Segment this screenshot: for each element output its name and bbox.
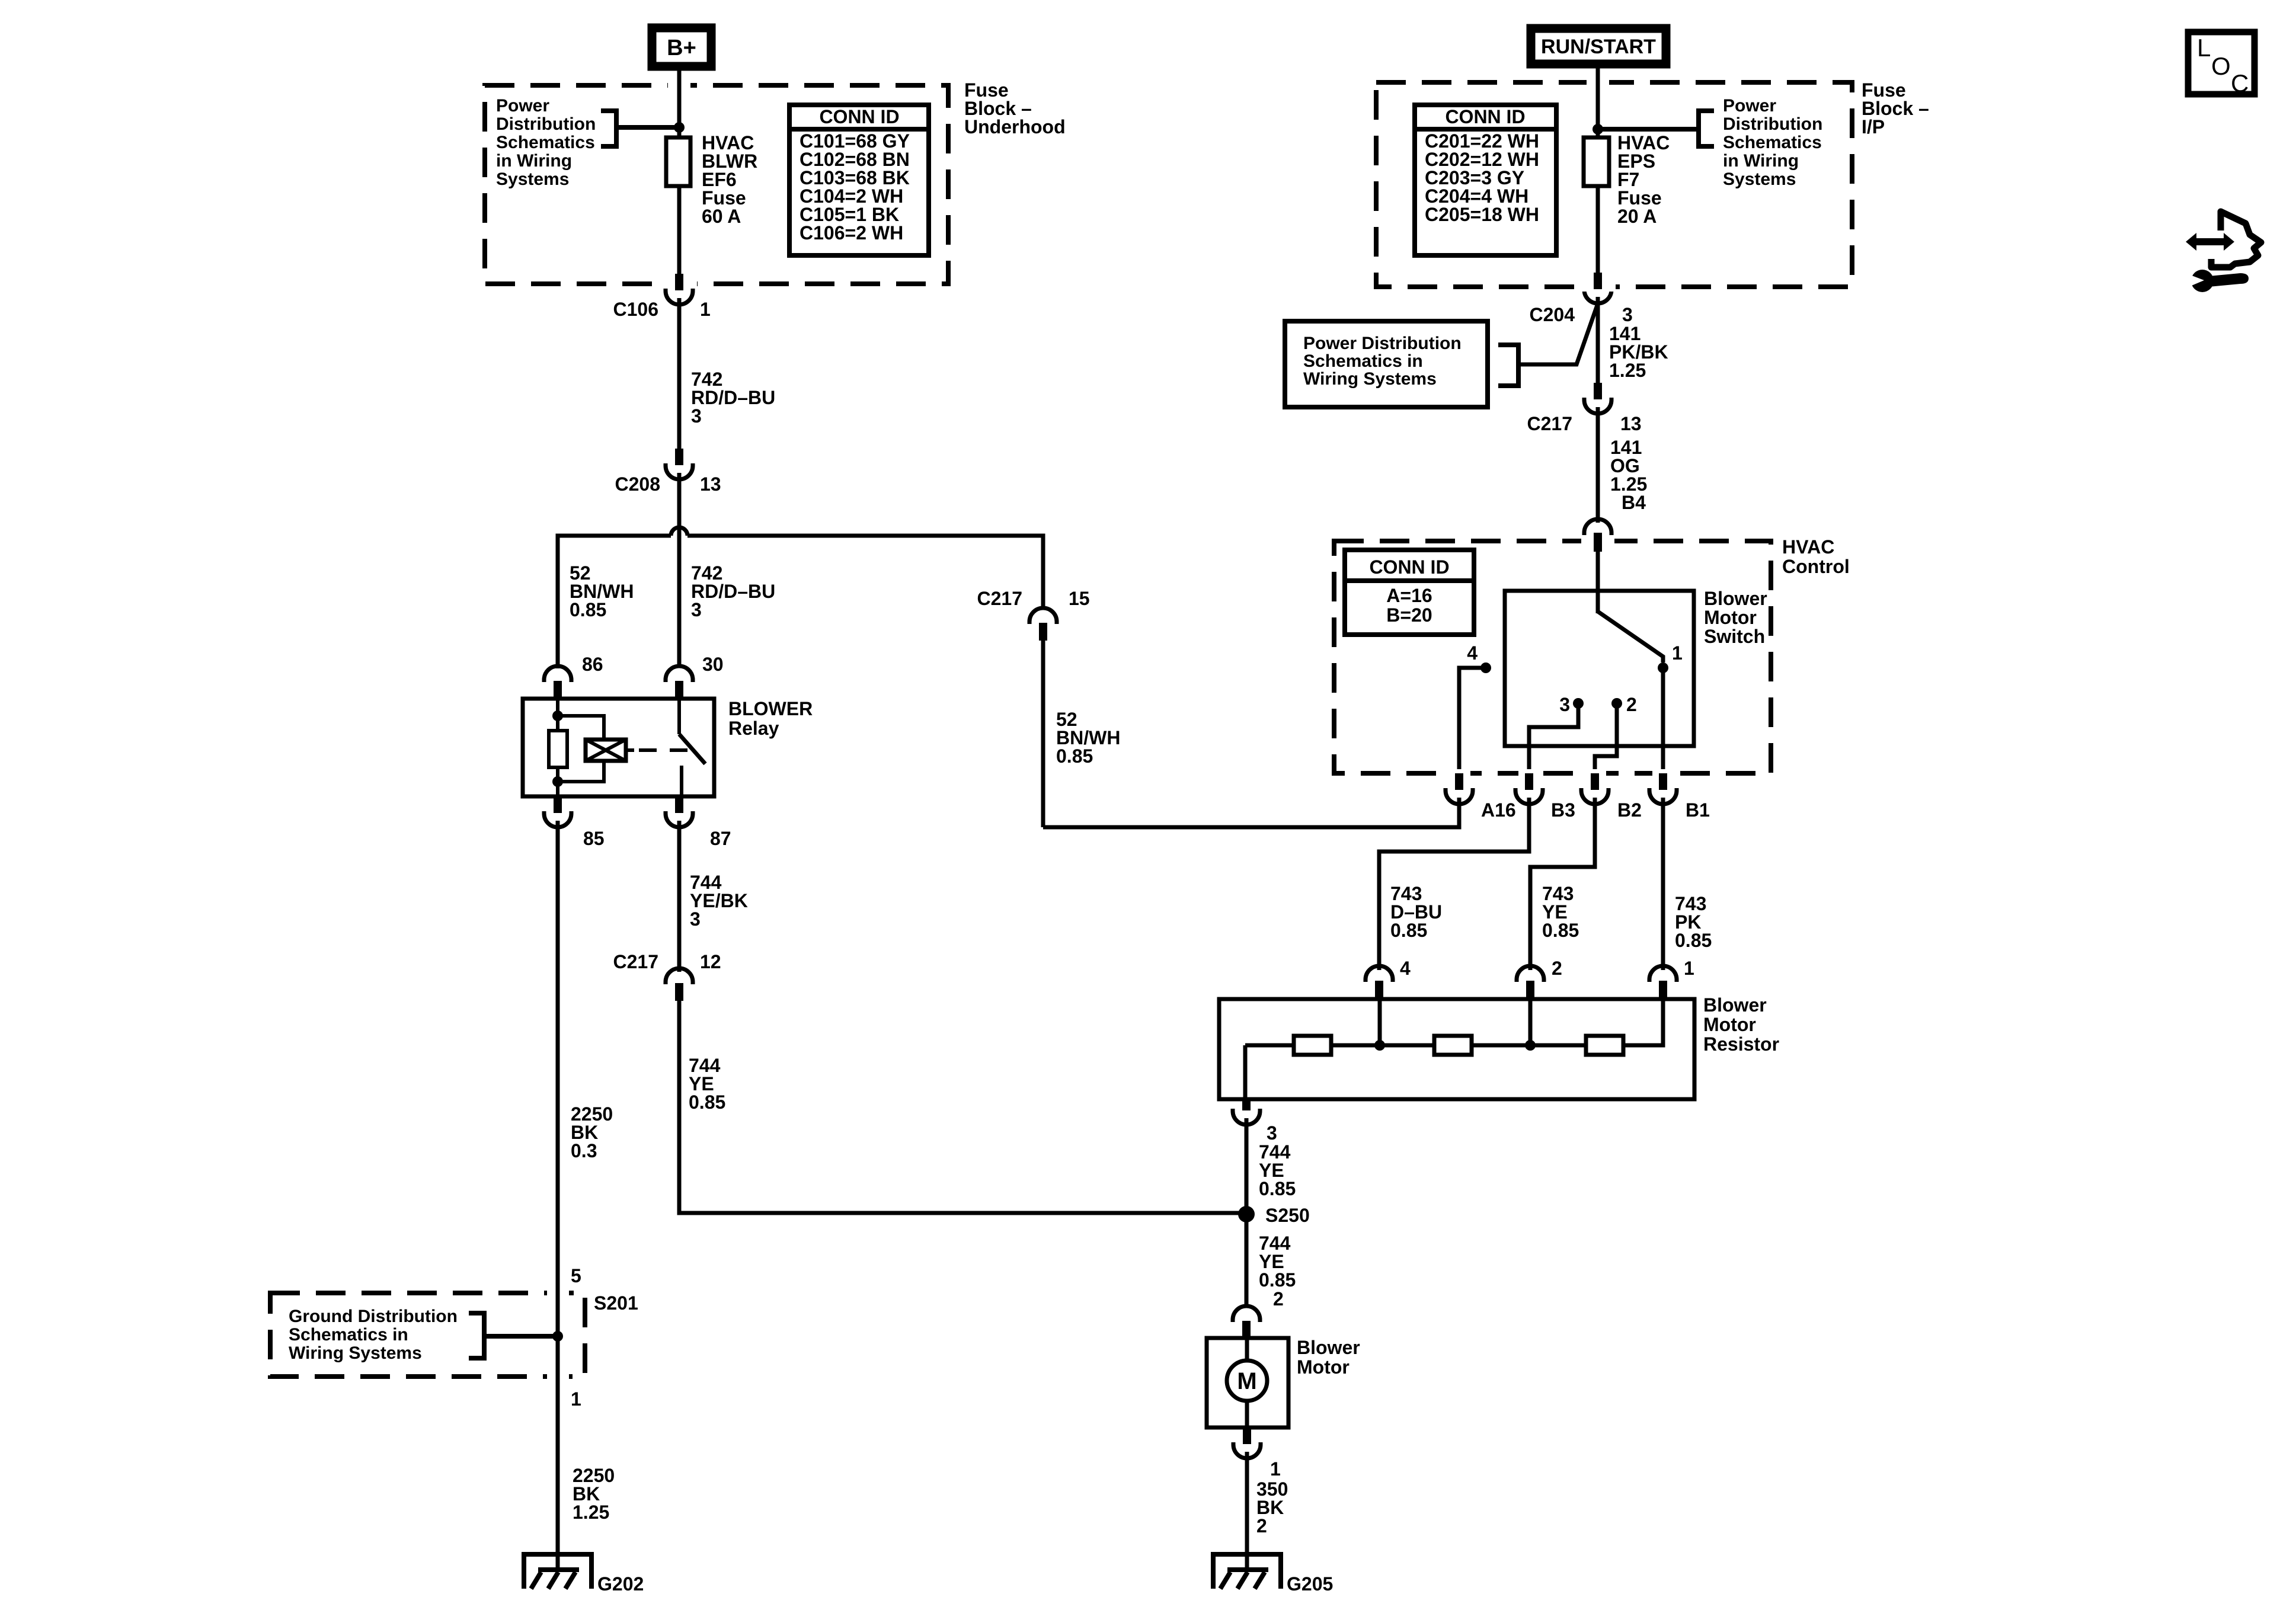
relay switch blade — [679, 734, 705, 764]
splice S250 — [1238, 1206, 1255, 1222]
connector C217 pin 13 — [1527, 383, 1642, 434]
node B+ power symbol — [652, 28, 711, 66]
svg-text:4: 4 — [1400, 958, 1411, 979]
svg-text:C217: C217 — [1527, 413, 1573, 434]
svg-text:2: 2 — [1552, 958, 1562, 979]
node RUN/START power symbol — [1531, 28, 1666, 64]
fuse block underhood dashed box — [485, 85, 948, 284]
relay internal resistor — [549, 731, 567, 767]
svg-text:B+: B+ — [667, 36, 696, 60]
wire C217-15 to A16 — [1043, 798, 1459, 827]
svg-text:C208: C208 — [615, 473, 661, 495]
wire 141 OG C217-13 to B4 — [1596, 407, 1600, 523]
bracket ground note to wire — [469, 1313, 484, 1358]
svg-text:4: 4 — [1467, 642, 1478, 664]
svg-text:G205: G205 — [1287, 1573, 1333, 1595]
svg-text:C201=22 WHC202=12 WHC203=3 GYC: C201=22 WHC202=12 WHC203=3 GYC204=4 WHC2… — [1425, 130, 1539, 225]
wire 350 BK motor to G205 — [1245, 1452, 1249, 1571]
connector C106 pin 1 — [613, 274, 711, 320]
fuse F7 symbol — [1584, 137, 1609, 186]
wire contact 1 down to B1 — [1661, 668, 1665, 776]
fuse block I/P dashed box — [1376, 82, 1852, 287]
switch blade from B4 to contact 1 — [1598, 612, 1663, 662]
relay internal: coil branch wires — [556, 699, 559, 731]
svg-text:15: 15 — [1069, 588, 1090, 609]
connector B3 — [1515, 773, 1575, 821]
svg-text:13: 13 — [1620, 413, 1642, 434]
svg-text:13: 13 — [700, 473, 721, 495]
svg-text:87: 87 — [710, 828, 731, 849]
svg-text:1: 1 — [1684, 958, 1694, 979]
wire 744 YE from C217-12 to S250 — [679, 1001, 1246, 1213]
connector C208 pin 13 — [615, 449, 721, 495]
svg-text:S201: S201 — [594, 1292, 638, 1314]
wire 2250 BK 0.3 : pin85 down to S201 and G202 — [556, 821, 560, 1571]
svg-text:86: 86 — [582, 654, 603, 675]
svg-text:B2: B2 — [1617, 799, 1642, 821]
svg-text:C101=68 GYC102=68 BNC103=68 BK: C101=68 GYC102=68 BNC103=68 BKC104=2 WHC… — [800, 130, 910, 244]
relay BLOWER box — [523, 699, 714, 796]
svg-text:CONN ID: CONN ID — [1445, 106, 1525, 127]
connector B4 — [1584, 519, 1611, 552]
table CONN ID I/P — [1415, 105, 1556, 255]
icon vehicle with arrow and wrench — [2186, 212, 2261, 292]
svg-text:C217: C217 — [613, 951, 659, 972]
wire B1 to resistor pin 1 — [1661, 798, 1665, 970]
svg-text:CONN ID: CONN ID — [819, 106, 899, 127]
blower motor box — [1207, 1338, 1288, 1427]
svg-text:C217: C217 — [977, 588, 1023, 609]
HVAC control dashed box — [1334, 541, 1771, 773]
svg-text:1: 1 — [571, 1388, 581, 1410]
wire RUN/START down to fuse F7 — [1596, 68, 1600, 137]
ground distribution dashed box S201 — [270, 1293, 585, 1377]
connector C204 pin 3 — [1530, 273, 1633, 325]
svg-text:C: C — [2231, 69, 2249, 97]
connector B1 — [1649, 773, 1710, 821]
connector relay pin 87 — [666, 796, 731, 849]
junction dot on B+ wire — [674, 122, 685, 133]
wire B3 to resistor pin 4 — [1379, 798, 1529, 970]
motor symbol M — [1227, 1338, 1267, 1427]
ground G205 — [1213, 1554, 1333, 1595]
svg-text:CONN ID: CONN ID — [1369, 556, 1449, 578]
svg-text:1: 1 — [1672, 642, 1683, 664]
connector resistor pin 1 — [1649, 958, 1694, 999]
wire B+ down to fuse EF6 — [677, 71, 682, 137]
wire B2 to resistor pin 2 — [1530, 798, 1595, 970]
svg-text:L: L — [2197, 34, 2211, 62]
svg-text:G202: G202 — [597, 1573, 644, 1595]
svg-text:C204: C204 — [1530, 304, 1575, 325]
svg-text:B1: B1 — [1686, 799, 1710, 821]
connector A16 — [1446, 773, 1516, 821]
contact 4 dot and wire to A16 — [1480, 662, 1491, 673]
svg-text:3: 3 — [1559, 694, 1570, 715]
table CONN ID underhood — [789, 105, 929, 255]
wire 744 YE/BK pin87 down to C217-12 — [677, 821, 682, 972]
connector C217 pin 15 — [977, 588, 1090, 641]
connector resistor pin 2 — [1517, 958, 1562, 999]
wire diagonal branch to power note — [1518, 303, 1598, 364]
connector relay pin 86 — [544, 654, 603, 699]
wire crossing patches over dashed borders — [547, 73, 1674, 1383]
wire 52 BN/WH C217-15 down — [1041, 641, 1045, 827]
relay coil (box with X) — [586, 740, 634, 761]
fuse EF6 symbol — [666, 137, 690, 186]
svg-text:RUN/START: RUN/START — [1541, 36, 1656, 58]
relay actuator dashed link — [639, 748, 689, 752]
connector relay pin 85 — [544, 796, 605, 849]
wire center branch to relay pin 30 — [677, 536, 682, 667]
wire C208 to rail — [677, 473, 682, 538]
wire rail to relay and C217-15 — [558, 536, 671, 668]
wire B4 into HVAC control — [1596, 550, 1600, 613]
ground G202 — [524, 1554, 644, 1595]
wire 744 YE resistor to S250 — [1245, 1118, 1249, 1213]
contact 1 dot and label — [1658, 662, 1668, 673]
contact 2 dot and wire to B2 — [1611, 698, 1622, 709]
table CONN ID HVAC control — [1345, 550, 1474, 635]
svg-text:M: M — [1237, 1368, 1256, 1394]
relay switch contact 87 side — [680, 766, 683, 796]
bracket solid box to diagonal — [1498, 345, 1518, 386]
bracket from note to wire — [601, 111, 616, 146]
wire 742 RD/D-BU C106 to C208 — [677, 298, 682, 451]
svg-text:12: 12 — [700, 951, 721, 972]
junction dot RUN/START wire — [1593, 124, 1603, 135]
svg-text:2: 2 — [1626, 694, 1637, 715]
svg-text:S250: S250 — [1265, 1205, 1310, 1226]
svg-text:85: 85 — [583, 828, 605, 849]
svg-text:1: 1 — [700, 299, 711, 320]
junction dot S201 — [552, 1331, 563, 1342]
blower motor switch box — [1505, 591, 1694, 746]
connector resistor pin 4 — [1366, 958, 1411, 999]
connector C217 pin 12 — [613, 951, 721, 1001]
icon LOC box — [2188, 32, 2255, 97]
svg-text:3: 3 — [1622, 304, 1633, 325]
svg-text:5: 5 — [571, 1265, 581, 1286]
svg-text:30: 30 — [702, 654, 724, 675]
blower motor resistor box — [1219, 999, 1694, 1099]
svg-text:A=16B=20: A=16B=20 — [1386, 585, 1432, 626]
svg-text:O: O — [2211, 52, 2231, 80]
wire fuse to C106 — [677, 186, 682, 276]
resistor internal network — [1245, 999, 1663, 1099]
contact 3 dot and wire to B3 — [1573, 698, 1584, 709]
svg-text:3: 3 — [1267, 1122, 1277, 1144]
bracket to note (right) — [1598, 127, 1699, 132]
wire 744 YE S250 to motor — [1245, 1214, 1249, 1307]
wire fuse to C204 — [1596, 186, 1600, 274]
connector motor pin 1 — [1233, 1427, 1281, 1480]
svg-text:B3: B3 — [1551, 799, 1575, 821]
wire 141 PK/BK C204 to C217-13 — [1596, 297, 1600, 384]
note Power Distribution Schematics in Wiring Systems (solid box) — [1285, 321, 1488, 407]
connector resistor pin 3 (output) — [1233, 1099, 1277, 1144]
svg-text:1: 1 — [1270, 1458, 1281, 1480]
relay switch contact 30 side — [677, 699, 681, 734]
connector B2 — [1581, 773, 1642, 821]
svg-text:C106: C106 — [613, 299, 659, 320]
connector relay pin 30 — [666, 654, 724, 699]
svg-text:A16: A16 — [1481, 799, 1516, 821]
connector motor pin 2 — [1233, 1306, 1260, 1338]
